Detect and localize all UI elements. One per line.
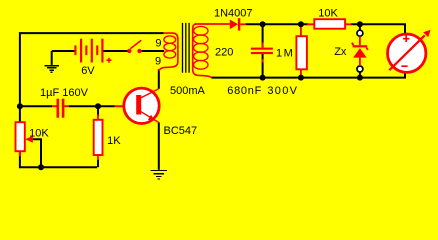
junction: top rail at 1M bbox=[298, 21, 304, 27]
wire: pot bottom lead to bottom-left rail bbox=[20, 151, 97, 167]
wire: battery to switch bbox=[103, 50, 127, 52]
junction: cap to 1K/base bbox=[95, 103, 101, 109]
svg-text:9: 9 bbox=[155, 38, 161, 50]
battery + sign bbox=[107, 58, 112, 63]
svg-text:BC547: BC547 bbox=[164, 125, 198, 137]
wire: bottom rail (secondary to meter) bbox=[211, 72, 405, 77]
svg-text:300V: 300V bbox=[267, 85, 298, 97]
svg-text:220: 220 bbox=[215, 46, 233, 58]
junction: bottom rail at 680nF bbox=[260, 75, 266, 81]
resistor R4 10K (series) bbox=[307, 23, 352, 25]
svg-text:10K: 10K bbox=[29, 127, 49, 139]
svg-text:680nF: 680nF bbox=[227, 85, 262, 97]
transformer primary winding (9+9) bbox=[159, 33, 178, 71]
ground G2 (emitter) bbox=[151, 171, 167, 180]
junction: top rail at Zx bbox=[357, 21, 363, 27]
svg-text:1M: 1M bbox=[276, 47, 294, 59]
switch S1 bbox=[127, 49, 131, 53]
potentiometer VR1 10K bbox=[16, 122, 25, 151]
resistor R2 1K bbox=[97, 115, 99, 161]
svg-text:1µF 160V: 1µF 160V bbox=[40, 87, 89, 99]
junction: top rail at 680nF bbox=[260, 21, 266, 27]
wire: collector (transformer to transistor) bbox=[158, 69, 160, 89]
wire: ground stub to battery bbox=[52, 50, 75, 52]
wire: 1K top lead bbox=[97, 106, 99, 116]
wire: top rail after diode (to 10K, Zx, meter) bbox=[246, 23, 309, 25]
svg-text:1N4007: 1N4007 bbox=[214, 8, 253, 20]
svg-text:9: 9 bbox=[155, 55, 161, 67]
resistor R3 1M bbox=[300, 26, 302, 77]
zener test terminal (top) bbox=[357, 30, 363, 36]
junction: bottom rail at Zx bbox=[357, 75, 363, 81]
transformer secondary winding (220) bbox=[193, 24, 212, 78]
transformer T1 core bbox=[183, 23, 190, 73]
meter M1 bbox=[388, 34, 426, 72]
ground G1 (battery) bbox=[51, 51, 53, 65]
wire: switch to transformer primary bbox=[142, 50, 165, 52]
junction: bottom rail at 1M bbox=[298, 75, 304, 81]
diode D1 1N4007 bbox=[230, 20, 238, 30]
junction: cap branch at left rail bbox=[17, 103, 23, 109]
capacitor C2 680nF bbox=[262, 24, 264, 47]
junction: wiper at bottom rail bbox=[38, 164, 44, 170]
wire: pot wiper to bottom rail bbox=[33, 139, 41, 167]
zener diode Zx bbox=[359, 36, 361, 65]
svg-text:1K: 1K bbox=[107, 135, 121, 147]
svg-text:Zx: Zx bbox=[334, 46, 347, 58]
wire: zener branch black segments bbox=[359, 24, 361, 77]
wire: capacitor C1 branch (left vertical to transistor base) bbox=[20, 105, 115, 107]
wire: secondary top lead to diode bbox=[195, 23, 230, 25]
wire: 1K bottom lead bbox=[97, 159, 99, 167]
battery B1 6V bbox=[74, 45, 76, 55]
transistor Q1 BC547 bbox=[114, 105, 136, 107]
svg-text:6V: 6V bbox=[81, 65, 95, 77]
zener test terminal (bottom) bbox=[357, 66, 363, 72]
capacitor C1 1uF 160V bbox=[52, 105, 68, 107]
wire: emitter to ground bbox=[158, 122, 160, 169]
svg-text:500mA: 500mA bbox=[170, 85, 206, 97]
svg-text:10K: 10K bbox=[318, 7, 338, 19]
wire: top-left frame (top wire + left vertical) bbox=[20, 33, 164, 122]
